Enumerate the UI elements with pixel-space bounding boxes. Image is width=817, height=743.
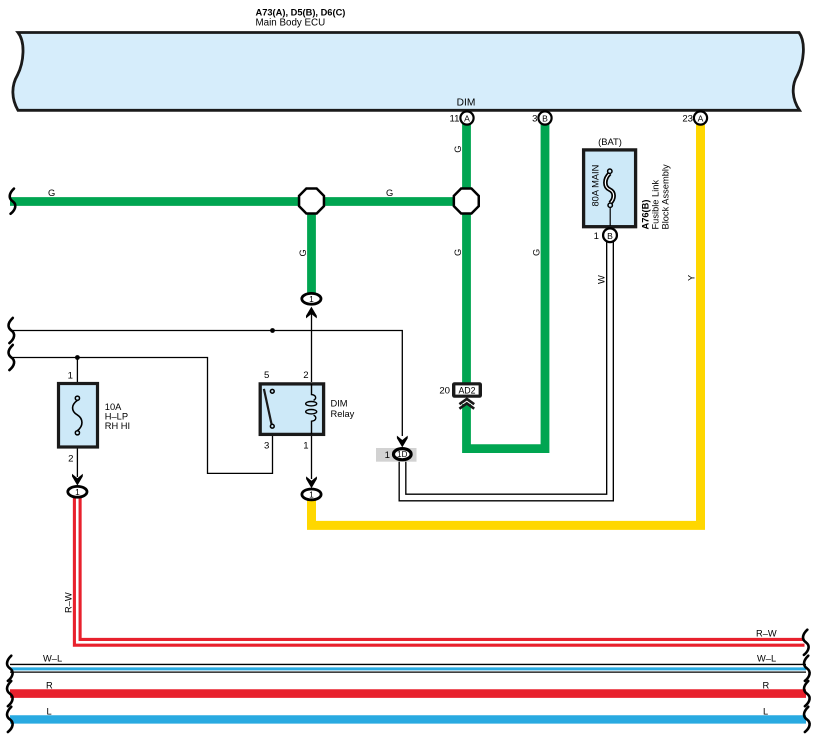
svg-text:AD2: AD2 bbox=[458, 385, 475, 395]
svg-text:1: 1 bbox=[75, 487, 80, 497]
svg-text:B: B bbox=[607, 231, 613, 241]
svg-text:G: G bbox=[453, 145, 463, 152]
svg-text:Main Body ECU: Main Body ECU bbox=[256, 18, 326, 29]
svg-text:G: G bbox=[48, 188, 55, 198]
svg-text:L: L bbox=[763, 706, 768, 716]
svg-text:1: 1 bbox=[303, 441, 308, 452]
svg-text:Block Assembly: Block Assembly bbox=[661, 164, 671, 229]
svg-text:G: G bbox=[386, 188, 393, 198]
svg-text:A73(A), D5(B), D6(C): A73(A), D5(B), D6(C) bbox=[256, 8, 346, 18]
svg-text:20: 20 bbox=[439, 385, 450, 396]
svg-text:DIM: DIM bbox=[457, 97, 476, 108]
svg-text:G: G bbox=[453, 249, 463, 256]
svg-text:Fusible Link: Fusible Link bbox=[651, 180, 661, 230]
svg-text:A76(B): A76(B) bbox=[641, 200, 651, 230]
svg-text:1: 1 bbox=[385, 450, 390, 461]
svg-text:Relay: Relay bbox=[331, 409, 355, 419]
svg-text:Y: Y bbox=[687, 275, 697, 281]
svg-text:2: 2 bbox=[303, 370, 308, 381]
svg-text:(BAT): (BAT) bbox=[598, 136, 622, 147]
svg-text:L: L bbox=[47, 706, 52, 716]
svg-text:1: 1 bbox=[309, 294, 314, 304]
svg-text:W–L: W–L bbox=[43, 654, 62, 664]
svg-text:5: 5 bbox=[264, 370, 269, 381]
svg-text:2: 2 bbox=[68, 454, 73, 465]
svg-text:DIM: DIM bbox=[331, 399, 348, 409]
svg-text:1: 1 bbox=[309, 489, 314, 499]
svg-text:80A MAIN: 80A MAIN bbox=[591, 165, 601, 207]
svg-text:3: 3 bbox=[264, 441, 269, 452]
svg-text:1: 1 bbox=[68, 371, 73, 382]
svg-text:11: 11 bbox=[450, 114, 460, 125]
svg-text:A: A bbox=[698, 114, 704, 124]
svg-text:23: 23 bbox=[682, 114, 693, 125]
svg-text:3: 3 bbox=[532, 114, 537, 125]
svg-text:1D: 1D bbox=[397, 450, 407, 459]
svg-text:B: B bbox=[542, 114, 548, 124]
svg-text:G: G bbox=[298, 249, 308, 256]
svg-text:G: G bbox=[531, 249, 541, 256]
svg-text:RH HI: RH HI bbox=[105, 421, 130, 431]
svg-text:R–W: R–W bbox=[756, 629, 777, 639]
svg-text:R: R bbox=[46, 681, 53, 691]
svg-text:R: R bbox=[763, 681, 770, 691]
svg-text:W: W bbox=[597, 275, 607, 284]
svg-text:1: 1 bbox=[594, 231, 599, 242]
svg-text:A: A bbox=[464, 114, 470, 124]
svg-text:R–W: R–W bbox=[63, 592, 73, 613]
svg-text:W–L: W–L bbox=[757, 654, 776, 664]
